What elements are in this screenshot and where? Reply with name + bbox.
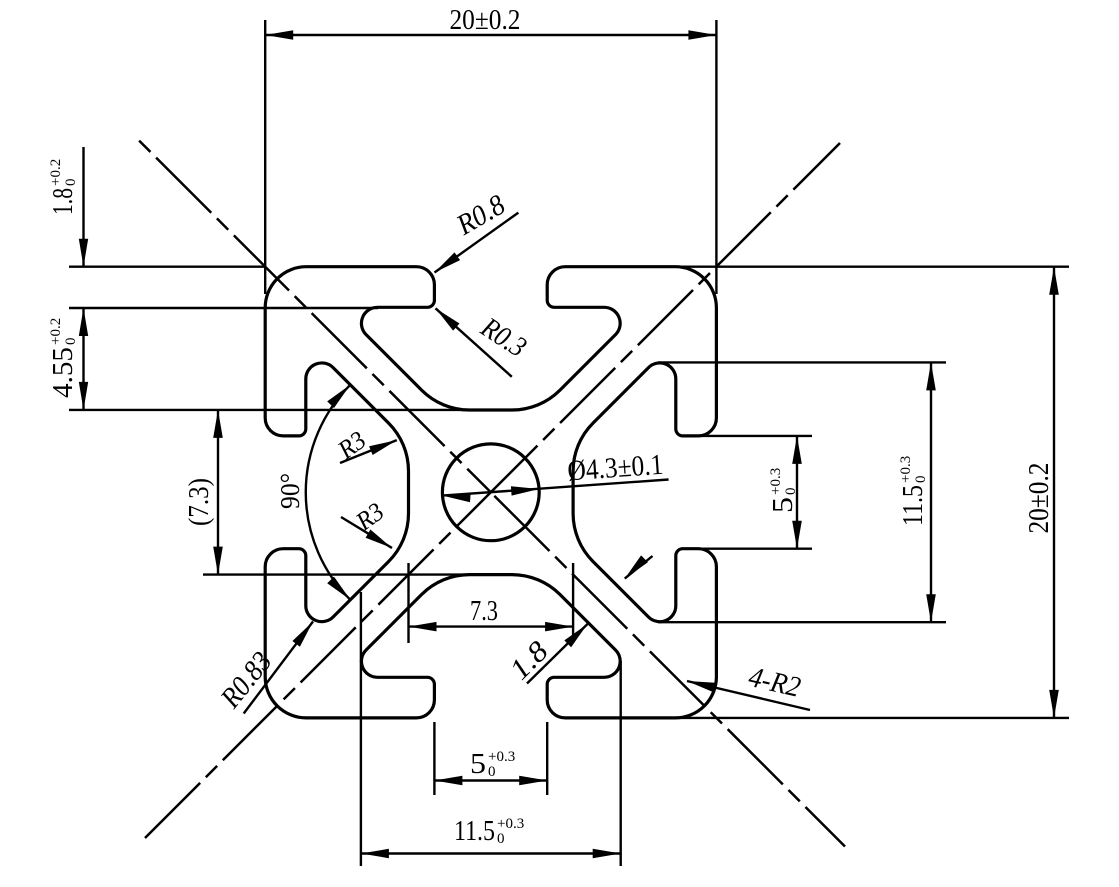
dim 5 bottom: extension lines	[433, 722, 435, 795]
dim 1.8 web: text	[504, 635, 555, 686]
svg-text:0: 0	[63, 179, 79, 187]
svg-text:+0.3: +0.3	[768, 468, 784, 495]
dim 20±0.2 right: text	[1023, 463, 1055, 534]
dim 11.5 bottom: dimension line	[361, 852, 621, 854]
svg-text:+0.3: +0.3	[898, 456, 914, 483]
profile outline	[265, 267, 716, 718]
dim 5 right: extension lines	[698, 435, 812, 437]
dim 90deg: text	[275, 473, 305, 509]
dim 11.5 right: dimension line	[930, 362, 932, 622]
dim 20±0.2 right: extension lines	[676, 266, 1069, 268]
leader R3 upper	[340, 440, 397, 463]
svg-text:11.5: 11.5	[897, 485, 929, 526]
svg-text:+0.2: +0.2	[48, 318, 64, 345]
dim 11.5 right: extension lines	[658, 361, 946, 363]
leader R0.3	[436, 308, 512, 377]
svg-text:90°: 90°	[275, 473, 305, 509]
dim 5 right: dimension line	[796, 436, 798, 549]
svg-text:(7.3): (7.3)	[183, 478, 215, 526]
svg-text:4.55: 4.55	[47, 347, 79, 398]
svg-text:+0.3: +0.3	[488, 749, 515, 765]
svg-text:0: 0	[497, 831, 505, 847]
svg-text:0: 0	[488, 764, 496, 780]
centerline D2 (BL-TR) lower half	[145, 492, 491, 838]
centerline D2 (BL-TR) upper half	[491, 143, 840, 492]
centerline D1 (TL-BR) lower half	[491, 492, 845, 846]
dim 11.5 right: text	[897, 456, 929, 526]
svg-text:7.3: 7.3	[470, 595, 498, 627]
dim 20±0.2 top: dimension line	[265, 34, 716, 36]
svg-text:Ø4.3±0.1: Ø4.3±0.1	[566, 449, 664, 488]
dim 4.55 left: dimension line + arrows	[82, 308, 84, 410]
dim 5 bottom: dimension line	[434, 779, 547, 781]
dim 5 right: text	[767, 468, 799, 513]
leader R0.83	[244, 622, 313, 714]
svg-text:0: 0	[783, 488, 799, 496]
dim 11.5 bottom: extension lines	[360, 592, 362, 866]
dim Ø4.3±0.1: text	[566, 449, 664, 488]
svg-text:+0.3: +0.3	[497, 816, 524, 832]
svg-text:1.8: 1.8	[47, 188, 79, 215]
dim (7.3) left: text	[183, 478, 215, 526]
svg-text:0: 0	[913, 476, 929, 484]
leader R0.8	[435, 213, 519, 273]
left extension line y=308	[69, 307, 378, 309]
dim 1.8 web: lines + arrows	[527, 624, 588, 684]
svg-text:20±0.2: 20±0.2	[450, 4, 521, 36]
left extension line y=410	[69, 409, 470, 411]
left extension line y=266.7	[69, 266, 265, 268]
dim 20±0.2 top: extension lines	[264, 20, 266, 294]
dim 7.3 bottom-middle: extension lines	[407, 563, 409, 643]
dim 7.3: dimension line	[409, 625, 574, 627]
center hole circle	[442, 444, 539, 541]
svg-text:5: 5	[767, 497, 799, 513]
svg-text:5: 5	[470, 748, 486, 780]
dim 1.8 top-left: text	[47, 159, 79, 215]
leader 4-R2	[687, 681, 810, 710]
dim 90deg: arc	[306, 385, 351, 600]
left extension line y=574.6	[203, 573, 470, 575]
leader R3 lower	[341, 517, 392, 548]
svg-text:0: 0	[63, 338, 79, 346]
dim 4.55 left: text	[47, 318, 79, 398]
svg-text:+0.2: +0.2	[48, 159, 64, 186]
svg-text:11.5: 11.5	[454, 815, 495, 847]
dim 1.8 top-left: dimension line + arrow	[82, 147, 84, 267]
dim 20±0.2 right: dimension line	[1053, 267, 1055, 718]
dim (7.3) left: dimension line + arrows	[217, 410, 219, 575]
dim Ø4.3±0.1: leader line	[442, 480, 668, 496]
svg-text:20±0.2: 20±0.2	[1023, 463, 1055, 534]
centerline D1 (TL-BR) upper half	[137, 139, 491, 493]
